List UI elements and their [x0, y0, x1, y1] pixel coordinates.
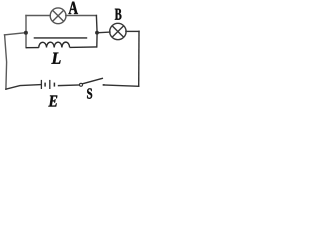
node B (junction dot right): [95, 31, 99, 35]
inductor core bar: [34, 37, 87, 39]
wire left edge vertical: [5, 35, 7, 89]
label L: [51, 53, 60, 64]
switch S lever: [82, 78, 103, 84]
label E: [48, 96, 57, 107]
wire node A-left to left edge: [5, 33, 26, 35]
label S: [87, 88, 92, 98]
lamp B: [110, 23, 126, 39]
wire top-left horizontal (node to lamp A): [26, 15, 50, 17]
wire bottom-left to battery: [6, 85, 41, 90]
wire right mid vertical (corner through node B to inductor): [95, 16, 98, 47]
lamp A: [50, 8, 66, 24]
wire top-left vertical drop: [25, 16, 27, 48]
inductor L coil: [26, 42, 97, 48]
switch right contact nub: [103, 84, 105, 86]
wire right edge vertical: [138, 31, 140, 86]
label A: [69, 2, 78, 14]
wire switch to bottom-right corner: [103, 85, 138, 86]
wire battery to switch: [59, 84, 80, 87]
wire lamp B to node B: [97, 31, 110, 34]
battery E plates: [41, 80, 54, 89]
label B: [115, 9, 122, 20]
node A (junction dot left): [24, 31, 28, 35]
wire lamp A to top-right corner: [66, 15, 97, 17]
wire top-right corner to lamp B: [126, 30, 139, 32]
switch S hinge: [80, 83, 83, 86]
